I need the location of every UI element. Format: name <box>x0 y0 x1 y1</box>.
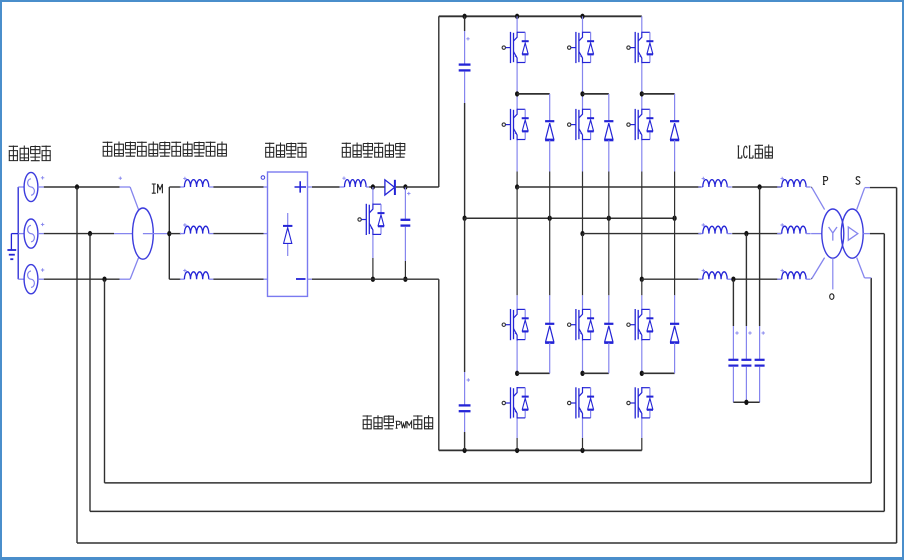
wire leg2 collector <box>582 16 584 31</box>
inductor LCL La2 <box>698 223 732 233</box>
wire chopper node in <box>369 186 385 188</box>
wire rotor bus vertical <box>168 187 170 279</box>
node leg1 output <box>515 184 519 189</box>
wire clamp3 upper lead <box>674 94 676 121</box>
transformer T1 <box>822 209 863 258</box>
capacitor C6 LCL shunt <box>728 279 738 402</box>
node LCL cap tap 3 <box>731 277 735 282</box>
transistor Q12 leg3 bottom <box>627 387 654 419</box>
label zhanbodianliu <box>342 143 406 158</box>
wire leg1 clamp top link <box>517 93 550 95</box>
inductor LCL Lb1 <box>777 177 811 187</box>
label gaoyadianwang <box>9 146 51 162</box>
wire xfmr in C <box>811 258 825 279</box>
inductor LCL La3 <box>698 269 732 279</box>
wire leg2 q1-q2 <box>582 63 584 108</box>
wire leg1 q1-q2 <box>516 63 518 108</box>
diode D4 clamp lower <box>604 324 613 343</box>
wire chopper igbt emitter <box>372 235 374 279</box>
node chopper T junction <box>371 184 375 189</box>
node LCL star junction <box>744 400 748 405</box>
wire leg2 emitter <box>582 419 584 451</box>
wire rotor phase 2b <box>213 233 267 235</box>
wire leg2 mid-q3 <box>582 234 584 309</box>
wire clamp2 upper lead <box>608 94 610 121</box>
wire rotor phase 1b <box>213 186 267 188</box>
node neutral junction <box>607 216 611 221</box>
wire feedback vertical phase C <box>104 279 106 483</box>
inductor rotor L2 <box>180 223 214 233</box>
wire xfmr out A <box>857 188 897 210</box>
wire rotor phase 1 <box>169 186 181 188</box>
wire rotor phase 2 <box>169 233 181 235</box>
transistor Q5 leg2 top <box>568 32 595 64</box>
wire leg3 q2-mid <box>641 140 643 279</box>
wire leg3 mid-q3 <box>641 279 643 309</box>
wire xfmr out B <box>863 233 884 235</box>
wire LCL mid 2 <box>732 233 781 235</box>
capacitor C2 dc top <box>459 65 471 71</box>
wire rotor phase 3b <box>213 278 267 280</box>
transistor Q11 leg3 lower-mid <box>627 309 654 341</box>
wire phase C grid <box>44 278 120 280</box>
diode D6 clamp lower <box>670 324 679 343</box>
wire clamp3 mid lead <box>674 140 676 324</box>
transistor Q8 leg2 bottom <box>568 387 595 419</box>
transistor Q7 leg2 lower-mid <box>568 309 595 341</box>
wire dc cap top lead <box>465 16 470 64</box>
wire leg2 clamp bottom link <box>583 372 609 374</box>
transistor Q2 leg1 upper-mid <box>502 109 529 141</box>
wire phase B NPC-LCL <box>583 233 702 235</box>
wire phase A NPC-LCL <box>517 186 701 188</box>
transistor Q10 leg3 upper-mid <box>627 109 654 141</box>
wire leg1 q3-A2 <box>516 341 518 374</box>
wire leg1 clamp bottom link <box>517 372 550 374</box>
inductor LCL Lb3 <box>777 269 811 279</box>
diode D5 clamp upper <box>670 121 679 140</box>
wire LCL mid 1 <box>732 186 781 188</box>
wire dc cap bottom lead <box>464 412 466 450</box>
inductor rotor L1 <box>180 177 214 187</box>
wire leg3 emitter <box>641 419 643 451</box>
AC voltage source V2 <box>18 219 44 248</box>
wire xfmr neutral stub <box>832 258 834 289</box>
rectifier U1 (uncontrolled bridge) <box>261 172 307 296</box>
wire leg3 q3-A2 <box>641 341 643 374</box>
label o <box>830 294 834 300</box>
node neutral junction <box>673 216 677 221</box>
node rotor mid junction <box>167 231 171 236</box>
label IM <box>152 184 163 193</box>
node leg2 output <box>580 231 584 236</box>
wire leg2 q2-mid <box>582 140 584 233</box>
wire chopper igbt collector <box>372 187 374 204</box>
wire leg1 q2-mid <box>516 140 518 187</box>
wire NPC bottom bus <box>439 449 642 451</box>
wire xfmr out C <box>857 258 872 278</box>
capacitor C4 LCL shunt <box>755 187 765 402</box>
label sandianping <box>363 415 434 429</box>
node leg1 A2 <box>515 371 519 376</box>
wire feedback vertical phase A <box>76 187 78 543</box>
wire leg3 clamp bottom link <box>642 372 675 374</box>
node cap bottom junction <box>403 277 407 282</box>
wire phase B grid <box>44 233 114 235</box>
wire xfmr in A <box>811 187 825 209</box>
node neutral junction <box>548 216 552 221</box>
node neutral cap junction <box>463 216 467 221</box>
transistor Q6 leg2 upper-mid <box>568 109 595 141</box>
label S <box>856 177 860 185</box>
inductor rotor L3 <box>180 269 214 279</box>
wire leg3 collector <box>641 16 643 31</box>
wire leg2 q3-A2 <box>582 341 584 374</box>
wire feedback right vertical A <box>896 188 898 543</box>
AC voltage source V1 <box>18 172 44 201</box>
node bottom bus junction <box>515 448 519 453</box>
label raoxianzhuanzi <box>103 142 227 157</box>
node top bus junction <box>515 14 519 19</box>
wire cap lead bottom <box>404 227 406 279</box>
diode D7 chopper series <box>385 180 395 195</box>
capacitor C5 LCL shunt <box>741 234 751 403</box>
node leg2 A1 <box>580 91 584 96</box>
node leg3 A2 <box>640 371 644 376</box>
wire clamp2 lower lead <box>608 343 610 374</box>
AC source bus wire <box>17 187 19 279</box>
wire feedback bottom B <box>90 510 884 512</box>
wire leg1 emitter <box>516 419 518 451</box>
wire chopper + to NPC <box>405 186 438 188</box>
label wukongzhengliu <box>265 143 307 158</box>
wire NPC left vertical top <box>438 16 440 187</box>
node top bus junction <box>580 14 584 19</box>
wire feedback bottom A <box>77 542 897 544</box>
wire dc mid lead 2 <box>465 218 470 405</box>
capacitor C3 dc bottom <box>459 405 471 411</box>
wire rect - output <box>308 278 439 280</box>
wire neutral line <box>465 217 675 219</box>
diode D3 clamp upper <box>604 121 613 140</box>
label P <box>823 177 828 185</box>
transistor Q9 leg3 top <box>627 32 654 64</box>
ground <box>7 234 18 260</box>
wire LCL cap star <box>733 401 759 403</box>
node bottom bus junction <box>463 448 467 453</box>
wire rect + output <box>308 186 340 188</box>
wire leg1 mid-q3 <box>516 187 518 309</box>
inductor LCL La1 <box>698 177 732 187</box>
diode D1 clamp upper <box>545 121 554 140</box>
wire clamp1 mid lead <box>549 140 551 324</box>
node top bus junction <box>463 14 467 19</box>
wire clamp1 upper lead <box>549 94 551 121</box>
capacitor C1 chopper <box>401 220 411 226</box>
wire leg1 collector <box>516 16 518 31</box>
wire LCL mid 3 <box>732 278 781 280</box>
node bottom bus junction <box>580 448 584 453</box>
node leg1 A1 <box>515 91 519 96</box>
node leg3 A1 <box>640 91 644 96</box>
node LCL cap tap 1 <box>758 184 762 189</box>
wire NPC top bus <box>439 15 642 17</box>
node chopper emitter junction <box>371 277 375 282</box>
wire cap lead top <box>405 187 410 220</box>
transistor Q7 chopper IGBT <box>358 204 385 236</box>
label LCL lvbo <box>738 145 773 159</box>
node C1 grid junction <box>102 277 106 282</box>
node LCL cap tap 2 <box>744 231 748 236</box>
wire clamp3 lower lead <box>674 343 676 374</box>
node B1 grid junction <box>88 231 92 236</box>
wire feedback right vertical B <box>883 234 885 512</box>
wire leg2 clamp top link <box>583 93 609 95</box>
node leg2 A2 <box>580 371 584 376</box>
wire diode to cap <box>396 186 406 188</box>
AC voltage source V3 <box>18 265 44 294</box>
wire phase A grid <box>44 186 120 188</box>
wire clamp2 mid lead <box>608 140 610 324</box>
node leg3 output <box>640 277 644 282</box>
wire leg3 q1-q2 <box>641 63 643 108</box>
wire clamp1 lower lead <box>549 343 551 374</box>
wire phase C NPC-LCL <box>642 278 701 280</box>
wire NPC left vertical bottom <box>438 279 440 450</box>
wire feedback vertical phase B <box>89 234 91 512</box>
diode D2 clamp lower <box>545 324 554 343</box>
wire xfmr in B <box>811 233 822 235</box>
transistor Q3 leg1 lower-mid <box>502 309 529 341</box>
inductor chopper L4 <box>340 177 370 188</box>
transistor Q4 leg1 bottom <box>502 387 529 419</box>
wire feedback right vertical C <box>870 278 872 483</box>
wire leg3 clamp top link <box>642 93 675 95</box>
node A1 grid junction <box>75 184 79 189</box>
motor IM <box>114 177 169 280</box>
transistor Q1 leg1 top <box>502 32 529 64</box>
wire dc mid lead <box>464 72 466 219</box>
node cap top junction <box>403 184 407 189</box>
wire feedback bottom C <box>105 482 872 484</box>
inductor LCL Lb2 <box>777 223 811 233</box>
wire rotor phase 3 <box>169 278 181 280</box>
